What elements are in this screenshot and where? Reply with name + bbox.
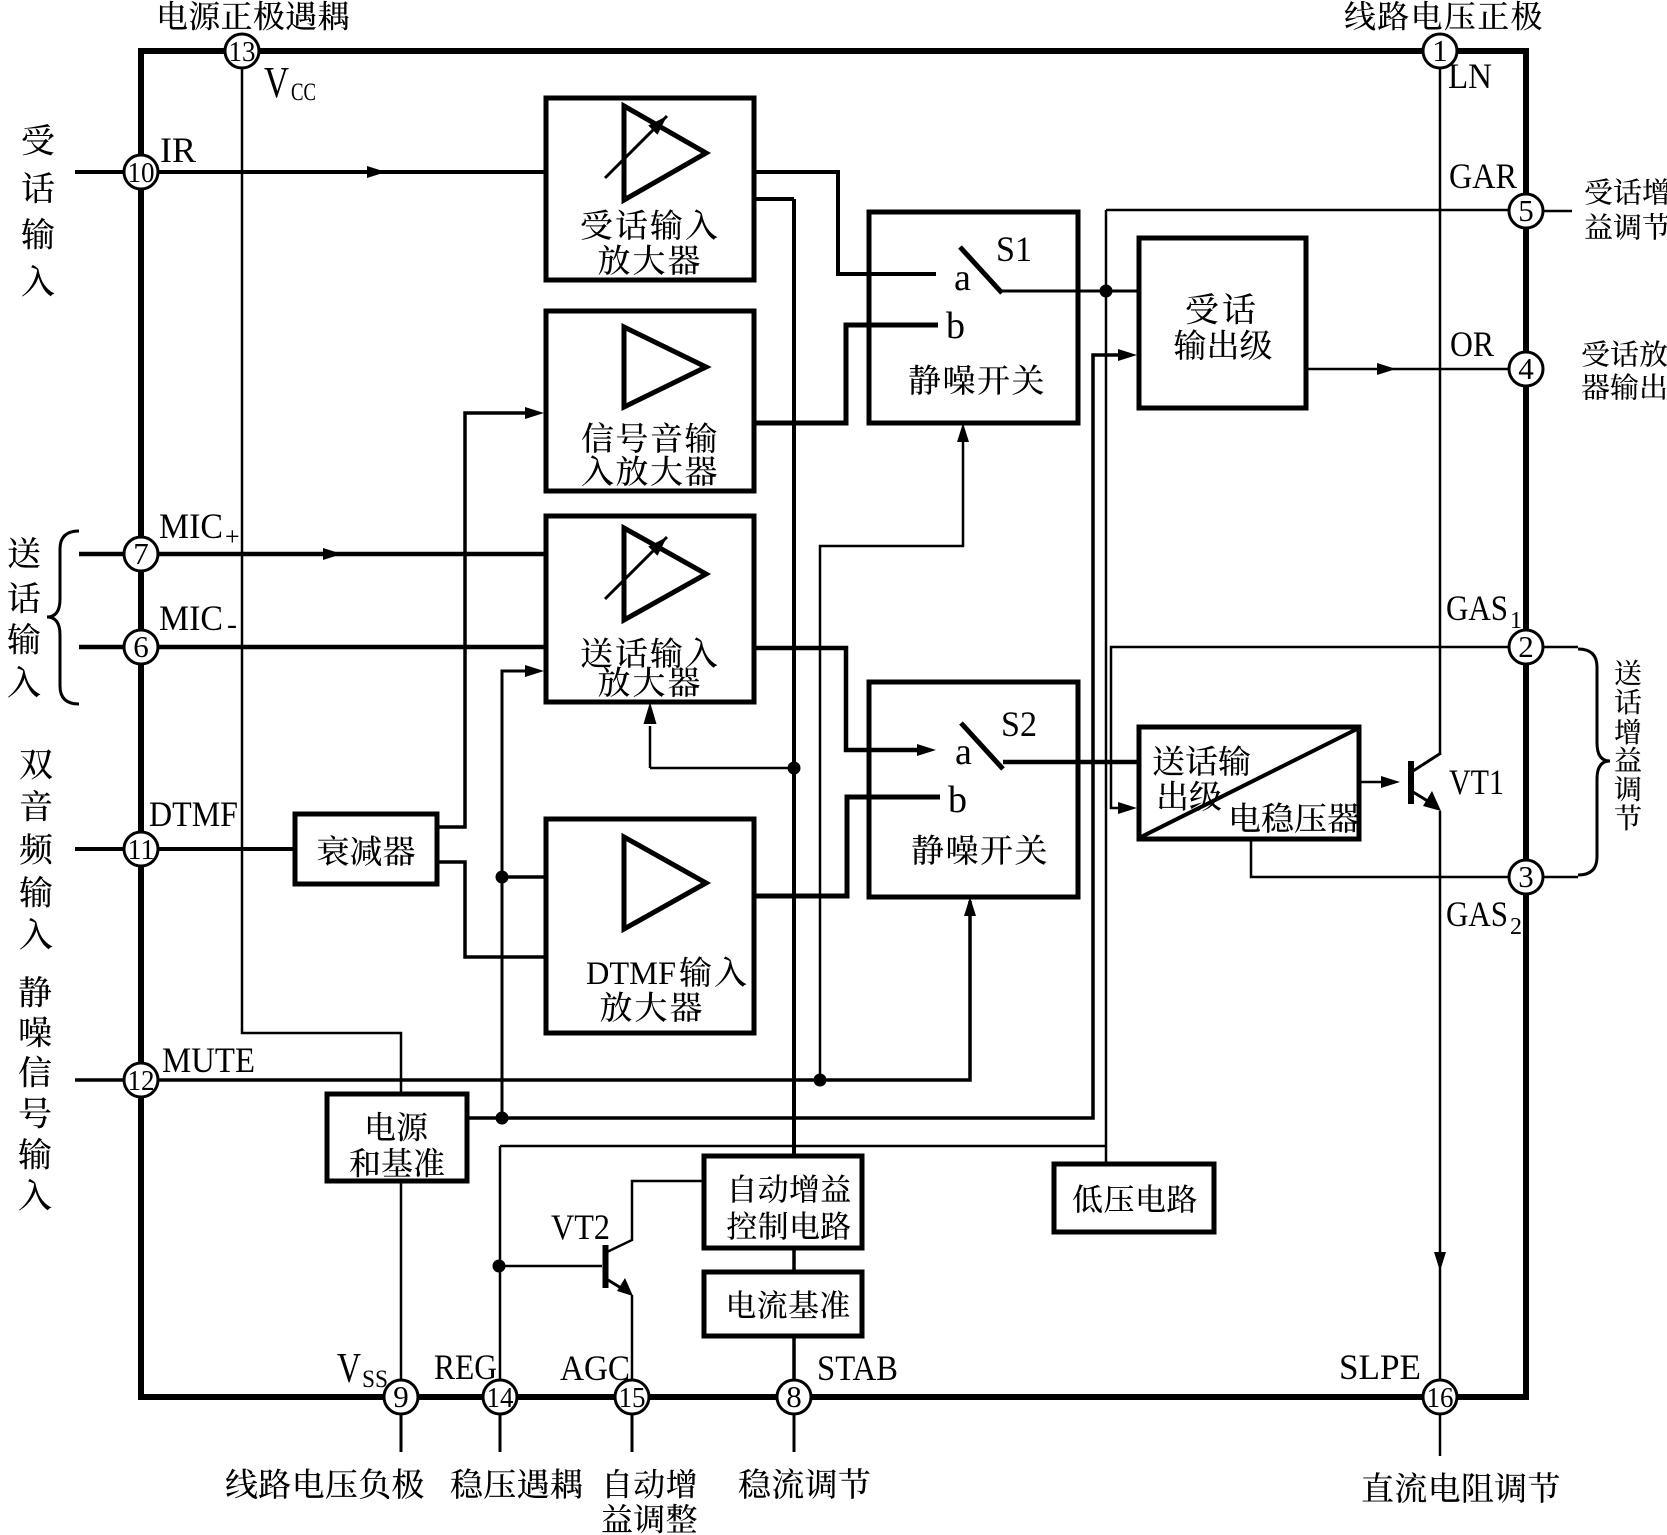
svg-text:a: a [955,731,972,773]
wire attenuator to tone amp input [437,413,528,827]
pin 12 MUTE [124,1063,158,1097]
block attenuator 衰减器 [295,814,437,884]
svg-text:2: 2 [1518,629,1534,664]
pin 5 GAR [1509,193,1543,228]
svg-text:V: V [337,1346,361,1392]
svg-text:b: b [946,305,965,347]
wire receive amp output to S1 contact a [754,172,936,274]
pin 11 DTMF [124,832,158,866]
label 送话增益调节 right [1615,660,1641,686]
svg-text:MIC: MIC [159,598,223,638]
wire GAS1 pin 2 to transmit output stage [1111,647,1514,808]
svg-text:CC: CC [291,79,316,106]
brace for MIC pins [47,531,79,704]
wire GAR pin 5 to receive path [1106,209,1514,212]
pin 2 GAS1 [1509,629,1543,664]
svg-text:9: 9 [393,1379,409,1414]
svg-text:VT1: VT1 [1449,762,1504,802]
junction GAR / S1 output [1100,285,1113,298]
svg-text:a: a [954,257,971,299]
svg-text:4: 4 [1518,351,1534,386]
wire regulator to VT1 base [1359,781,1382,784]
pin 1 LN [1423,33,1457,68]
svg-text:1: 1 [1510,608,1522,634]
svg-text:SLPE: SLPE [1339,1347,1421,1387]
svg-text:DTMF: DTMF [149,794,238,834]
wire GAS2 stub to brace [1543,876,1578,879]
label GAS1 [1446,588,1522,634]
svg-text:GAR: GAR [1449,156,1517,196]
svg-text:REG: REG [434,1347,497,1387]
wire S1 wiper to receive output stage [1002,290,1139,293]
label VSS [337,1346,388,1393]
label GAS2 [1446,894,1522,940]
junction MUTE branch [814,1074,827,1087]
wire GAS1 stub to brace [1543,646,1578,649]
svg-text:S1: S1 [996,229,1032,269]
svg-text:STAB: STAB [817,1348,898,1388]
svg-text:+: + [225,522,240,551]
pin 4 OR [1509,351,1543,386]
svg-text:IR: IR [160,130,196,170]
svg-text:S2: S2 [1001,704,1037,744]
block power and reference 电源和基准 [327,1094,467,1181]
pin 3 GAS2 [1509,859,1543,894]
label 线路电压负极 bottom [226,1468,424,1499]
block AGC control circuit 自动增益控制电路 [704,1156,862,1248]
wire VT1 emitter to pin 16 SLPE [1439,811,1442,1383]
svg-text:13: 13 [229,37,256,68]
svg-text:16: 16 [1427,1383,1454,1414]
wire stub below pin 9 [400,1413,403,1452]
wire reference output to receive output stage [467,355,1121,1118]
wire IR input pin 10 to receive amp [75,170,546,174]
pin 7 MIC+ [124,536,158,571]
block transmit input amplifier 送话输入放大器 [546,516,754,702]
svg-text:3: 3 [1518,859,1534,894]
pin 10 IR [124,155,158,189]
wire GAR stub outside pin 5 [1543,210,1572,213]
pin 9 VSS [384,1379,418,1414]
wire OR output to pin 4 [1306,368,1526,371]
wire attenuator second output to DTMF amp [437,862,546,957]
label 自动增益调整 bottom [602,1469,697,1533]
svg-text:1: 1 [1432,33,1448,68]
wire REG pin 14 vertical [499,1146,502,1381]
svg-text:OR: OR [1450,324,1494,364]
wire AGC control line vertical [792,199,796,1156]
pin 14 REG [483,1380,517,1414]
junction bias/DTMF [496,871,509,884]
wire DTMF pin 11 to attenuator [75,847,295,851]
wire REG branch to low voltage block [500,1145,1106,1148]
wire AGC to transmit amp bottom [649,726,652,768]
svg-text:AGC: AGC [560,1348,630,1388]
label 静噪信号输入 left [19,976,51,1007]
block receive output stage 受话输出级 [1139,238,1306,408]
svg-text:14: 14 [487,1383,514,1414]
svg-text:-: - [227,608,237,641]
svg-text:b: b [948,779,967,821]
wire stub below pin 14 [499,1413,502,1452]
wire tone amp output to S1 contact b [754,325,938,423]
label VCC [264,58,316,107]
wire MIC- pin 6 to transmit amp [79,645,546,650]
pin 8 STAB [777,1379,811,1414]
svg-text:GAS: GAS [1446,894,1508,934]
svg-text:6: 6 [133,629,149,664]
IC package outline [141,51,1526,1397]
svg-text:2: 2 [1510,914,1522,940]
block tone input amplifier 信号音输入放大器 [546,311,754,491]
block DTMF input amplifier DTMF输入放大器 [546,819,754,1033]
wire DTMF amp output to S2 contact b [754,797,940,896]
label 双音频输入 left [20,749,52,779]
label 稳压退耦 bottom [451,1468,582,1498]
pin 16 SLPE [1423,1380,1457,1414]
wire VSS from power block to pin 9 [400,1181,403,1381]
pin 13 VCC [225,34,259,68]
label 受话放大器输出 right of pin 4 [1582,340,1667,400]
wire transmit amp output to S2 contact a [754,648,920,750]
svg-text:GAS: GAS [1446,588,1508,628]
wire MUTE pin 12 to S2 [75,901,970,1080]
pin 6 MIC- [124,629,158,664]
block receive input amplifier 受话输入放大器 [546,98,754,280]
svg-text:7: 7 [133,536,149,571]
label 电源正极退耦 top left [160,1,349,31]
wire S2 wiper to transmit output stage [1003,760,1139,765]
wire stub below pin 16 [1439,1413,1442,1456]
svg-text:10: 10 [128,158,155,189]
junction AGC/transmit amp [788,762,801,775]
block mute switch S1 静噪开关 [869,212,1078,423]
svg-text:VT2: VT2 [551,1207,610,1247]
label MIC+ [159,506,240,551]
label 受话输入 left [23,124,54,155]
block mute switch S2 静噪开关 [869,682,1078,897]
svg-text:V: V [264,58,289,107]
svg-text:DTMF: DTMF [586,956,676,992]
label 稳流调节 bottom [739,1468,870,1499]
svg-text:MUTE: MUTE [162,1040,255,1080]
wire receive amp AGC tap [754,197,794,201]
wire STAB pin 8 to current reference [792,1336,796,1381]
wire GAR vertical down to low voltage block [1105,210,1108,1164]
wire LN line pin 1 to VT1 collector [1439,64,1442,753]
label 送话输入 left [8,537,39,568]
block low voltage circuit 低压电路 [1054,1164,1214,1232]
junction VT2 base / REG [493,1260,506,1273]
wire reference bias to transmit amp [502,671,528,1118]
label 受话增益调节 right of pin 5 [1585,178,1667,240]
wire VCC from pin 13 down to power block [242,65,401,1094]
svg-text:8: 8 [786,1379,802,1414]
brace for GAS pins [1578,649,1610,875]
junction reference output [496,1112,509,1125]
transistor VT2 [499,1265,602,1268]
svg-text:SS: SS [362,1366,388,1393]
wire stub below pin 8 [793,1413,796,1452]
wire MUTE branch to S1 [820,431,963,1080]
wire GAS2 pin 3 to regulator [1251,839,1514,877]
svg-text:12: 12 [128,1066,155,1097]
block transmit output stage / regulator 送话输出级 电稳压器 [1139,727,1359,839]
wire bias branch to DTMF amp [502,875,546,879]
wire AGC block to current reference [792,1248,796,1272]
pin 15 AGC [615,1380,649,1414]
wire stub below pin 15 [631,1413,634,1452]
svg-text:5: 5 [1518,193,1534,228]
label 线路电压正极 top right [1345,1,1542,31]
transistor VT1 [1408,761,1414,804]
label 直流电阻调节 bottom [1362,1472,1559,1503]
wire MIC+ pin 7 to transmit amp [79,552,546,557]
svg-text:MIC: MIC [159,506,223,546]
label MIC- [159,598,237,641]
svg-text:LN: LN [1448,56,1492,96]
svg-text:11: 11 [128,835,155,866]
block current reference 电流基准 [704,1272,862,1336]
